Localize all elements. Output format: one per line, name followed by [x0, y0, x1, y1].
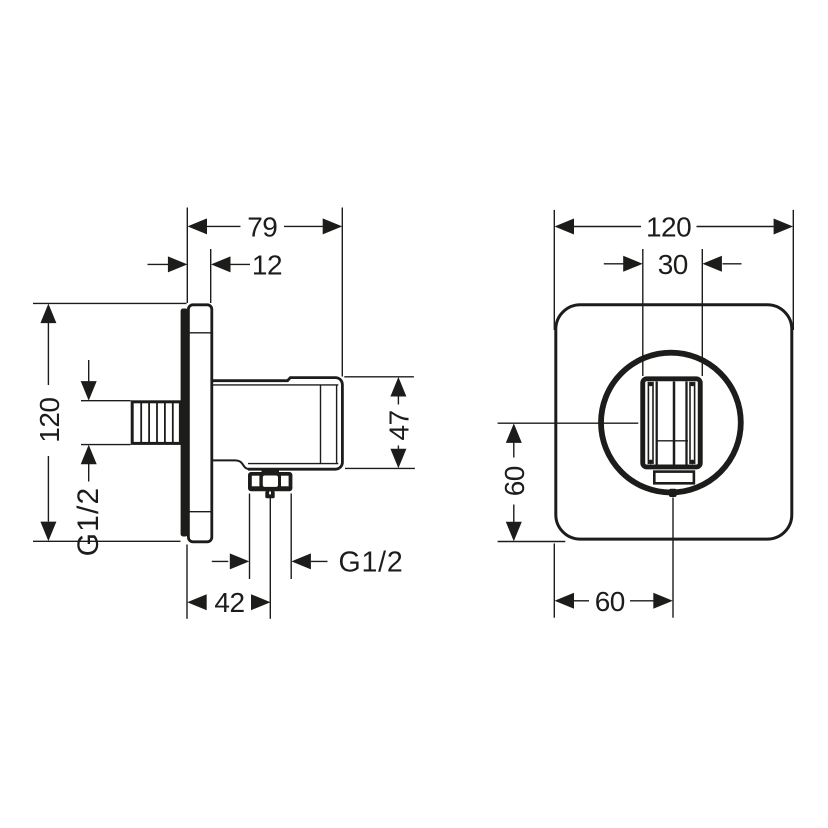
cup wall right	[685, 382, 687, 465]
outlet nut bridge	[262, 469, 280, 475]
dimension 79 line	[207, 225, 241, 227]
body inner bottom line	[248, 463, 338, 465]
dimension 12 arrow left (outside)	[148, 263, 170, 265]
escutcheon plate (side view)	[188, 305, 211, 542]
outlet connector block	[265, 491, 274, 498]
dimension 60 arrow up	[506, 423, 522, 443]
holder foot	[654, 472, 694, 484]
dimension 60 bottom arrow left	[555, 593, 575, 609]
cup inner back wall	[320, 385, 322, 464]
extension line plate right (vertical, top)	[792, 210, 794, 330]
extension line 42 right / outlet centre (vertical)	[269, 498, 271, 619]
extension line body front (vertical, top)	[341, 208, 343, 377]
svg-text:47: 47	[383, 410, 414, 440]
dimension 12 arrow right (outside)	[211, 256, 231, 272]
extension line holder right (vertical)	[701, 249, 703, 376]
outlet body / holder cup outline (side view)	[213, 378, 342, 470]
nut facet middle	[263, 476, 278, 487]
extension line pipe top (horizontal)	[81, 400, 131, 402]
svg-text:60: 60	[595, 586, 625, 617]
extension line cup bottom (horizontal right)	[345, 467, 415, 469]
plate divider line bottom	[189, 511, 211, 513]
holder ring	[601, 353, 741, 493]
extension line holder centre (vertical, bottom)	[672, 498, 674, 618]
holder frame (front view)	[643, 379, 701, 467]
svg-text:120: 120	[34, 397, 65, 442]
wall plate back bar (side view)	[181, 309, 188, 537]
connector slit	[269, 492, 271, 495]
dimension 120 arrow left	[555, 219, 575, 235]
cup crossbar	[657, 440, 688, 442]
dimension 47 arrow up	[390, 377, 406, 397]
extension line cup top (horizontal right)	[344, 376, 414, 378]
extension line pipe bottom (horizontal)	[81, 444, 131, 446]
dimension 120 line	[574, 226, 641, 228]
cup centre divider	[673, 382, 676, 465]
cup wall left	[656, 382, 658, 465]
svg-text:G1/2: G1/2	[72, 487, 105, 557]
extension line outlet right (vertical)	[290, 494, 292, 580]
svg-text:42: 42	[214, 587, 244, 618]
dimension 79 arrow right	[323, 218, 343, 234]
extension line plate back (vertical, top)	[186, 208, 188, 304]
dimension 47 arrow down	[390, 449, 406, 469]
dimension 60 line (vertical)	[513, 443, 515, 458]
dimension 60 arrow down	[506, 522, 522, 542]
supply pipe (threaded, side view)	[132, 402, 180, 444]
svg-text:30: 30	[658, 249, 688, 280]
extension line holder left (vertical)	[642, 249, 644, 376]
holder rod right inner	[689, 382, 691, 464]
extension line plate bottom left (horizontal)	[498, 541, 566, 543]
dimension 42 arrow left	[187, 594, 207, 610]
dimension 60 bottom line	[574, 600, 589, 602]
extension line plate left (vertical, top)	[553, 210, 555, 330]
outlet G1/2 arrow right (outside)	[291, 553, 311, 569]
cup inner front wall	[336, 385, 338, 464]
outlet G1/2 arrow left (outside)	[212, 560, 229, 562]
svg-text:60: 60	[499, 466, 530, 496]
dimension 60 bottom arrow right	[653, 593, 673, 609]
extension line 42 left (vertical)	[186, 545, 188, 619]
svg-text:12: 12	[252, 249, 282, 280]
pipe G1/2 arrow down	[88, 360, 90, 383]
pipe G1/2 arrow up	[81, 445, 97, 465]
dimension 120 line	[47, 323, 49, 385]
body inner top line	[213, 384, 338, 386]
nut facet right	[281, 476, 289, 487]
escutcheon plate (front view)	[556, 305, 792, 539]
pipe thread hatch	[141, 402, 173, 443]
rod end dots	[648, 382, 694, 465]
holder rod left outer	[647, 382, 649, 464]
extension line plate left (vertical, bottom)	[553, 544, 555, 618]
outlet nut (hex, side view)	[248, 472, 292, 491]
dimension 120 arrow down	[40, 522, 56, 542]
extension line holder centre (horizontal)	[498, 422, 639, 424]
dimension 42 arrow right	[251, 594, 271, 610]
extension line plate bottom (horizontal)	[33, 540, 181, 542]
dimension 120 arrow up	[40, 304, 56, 324]
body bottom arm edge with step	[213, 460, 249, 469]
dimension 30 arrow right (outside)	[702, 256, 722, 272]
plate divider line top	[189, 332, 211, 334]
holder rod right outer	[694, 382, 696, 464]
nut facet left	[252, 476, 260, 487]
holder rod left inner	[652, 382, 654, 464]
extension line outlet left (vertical)	[249, 494, 251, 580]
svg-text:120: 120	[646, 212, 691, 243]
dimension 120 arrow right	[774, 219, 794, 235]
svg-text:79: 79	[247, 211, 277, 242]
extension line plate front (vertical, top)	[210, 249, 212, 303]
extension line plate top (horizontal)	[33, 302, 187, 304]
dimension 30 arrow left (outside)	[604, 263, 624, 265]
dimension 79 arrow left	[188, 218, 208, 234]
holder nub	[669, 489, 677, 497]
svg-text:G1/2: G1/2	[339, 546, 404, 578]
